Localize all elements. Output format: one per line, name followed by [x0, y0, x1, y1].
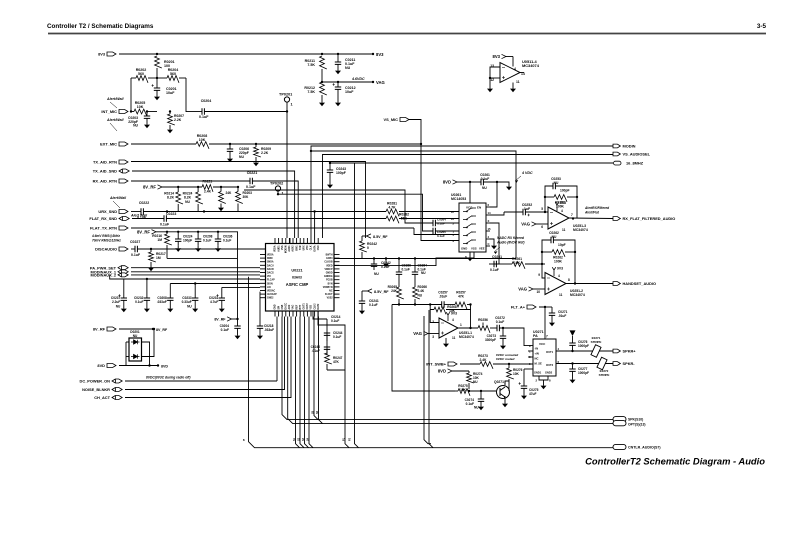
ground C0212: [337, 100, 339, 103]
svg-text:CLKOB: CLKOB: [324, 262, 333, 264]
svg-text:100K: 100K: [556, 205, 565, 209]
resistor R0211: [320, 56, 327, 69]
wire mux in1 direct: [399, 211, 459, 213]
svg-text:8V_RF: 8V_RF: [93, 327, 106, 332]
ground C0271: [551, 320, 553, 323]
svg-text:C0223: C0223: [166, 212, 176, 216]
svg-text:6: 6: [541, 225, 543, 229]
wire cap row bus 1: [110, 275, 260, 279]
svg-text:CNTLR_AUDIO(S7): CNTLR_AUDIO(S7): [628, 446, 661, 450]
wire URX_SND run: [143, 211, 386, 213]
wire mic node to C0204: [186, 111, 202, 113]
svg-text:VAG: VAG: [292, 304, 295, 309]
terminal SPK OPT double: [613, 417, 626, 422]
ground R0212: [321, 100, 323, 103]
svg-text:BYP: BYP: [300, 304, 302, 309]
supply 8VD Q0271: [448, 369, 453, 373]
svg-text:8V3: 8V3: [376, 52, 384, 57]
wire FLAT_TX_RTN: [131, 227, 414, 229]
svg-text:0.1uF: 0.1uF: [221, 328, 229, 332]
svg-text:VSS: VSS: [471, 247, 477, 251]
wire MODINAUX_2: [131, 274, 260, 276]
svg-text:100pF: 100pF: [560, 189, 570, 193]
wire U0252 out: [566, 283, 613, 285]
svg-text:NU: NU: [133, 334, 138, 338]
terminal HANDSET_AUDIO: [613, 282, 620, 286]
svg-text:NU: NU: [473, 380, 478, 384]
capacitor C0208: [169, 284, 171, 299]
svg-text:GND: GND: [275, 304, 277, 309]
ground C0204b: [237, 333, 239, 336]
wire 8V3 rail: [119, 53, 373, 55]
svg-text:NU: NU: [345, 66, 351, 70]
capacitor C0203 shunt: [146, 110, 148, 112]
svg-text:8V_RF: 8V_RF: [137, 230, 150, 235]
mux pin7 wire: [334, 252, 474, 266]
capacitor C0201: [156, 78, 158, 88]
feedback C0262: [542, 240, 551, 264]
wire PA in stubs: [528, 350, 533, 352]
svg-text:C: C: [488, 242, 490, 246]
ASIC top pins: [274, 238, 276, 244]
svg-text:11: 11: [516, 80, 520, 84]
wire 8VD bottom: [119, 365, 158, 367]
svg-text:47uF: 47uF: [529, 392, 536, 396]
ground C0232: [146, 306, 148, 309]
svg-text:VS_AUDIOSEL: VS_AUDIOSEL: [623, 152, 651, 157]
diode D0201 box: [129, 338, 142, 361]
svg-text:0.1uF: 0.1uF: [333, 335, 341, 339]
svg-text:ASFIC CMP: ASFIC CMP: [286, 282, 309, 287]
wire VS_MIC: [409, 120, 421, 145]
svg-text:Alert/Flat: Alert/Flat: [584, 211, 600, 215]
svg-text:12: 12: [451, 210, 455, 214]
terminal PA_PWR_SET: [118, 266, 128, 270]
svg-text:VS_MIC: VS_MIC: [384, 117, 399, 122]
ground C0201: [156, 94, 158, 97]
wire Q0271 emitter: [504, 397, 506, 401]
svg-text:11: 11: [562, 228, 566, 232]
resistor R0202: [131, 77, 136, 79]
wire MODIN: [311, 146, 613, 238]
svg-text:Audio (8VDC Ref): Audio (8VDC Ref): [496, 241, 524, 245]
svg-text:0.1uF: 0.1uF: [496, 320, 505, 324]
svg-text:CLK2: CLK2: [314, 303, 316, 310]
svg-text:4.6VDC: 4.6VDC: [351, 77, 365, 81]
wire bundle hook h4: [309, 317, 313, 448]
wire rail 4VDC: [311, 151, 516, 259]
wire vert x424: [424, 316, 431, 444]
svg-text:3300pF: 3300pF: [485, 338, 496, 342]
svg-text:Alert/Wail: Alert/Wail: [106, 97, 125, 101]
svg-text:4: 4: [558, 274, 560, 278]
ground C0218: [259, 333, 261, 336]
header rule: [48, 33, 766, 35]
svg-text:9V3: 9V3: [451, 312, 457, 316]
svg-text:+IN: +IN: [535, 352, 539, 356]
wire U0253 vag: [424, 331, 429, 335]
svg-text:C0204: C0204: [201, 99, 212, 103]
svg-text:0.1uF: 0.1uF: [223, 239, 231, 243]
wire DC_POWER_ON: [125, 380, 277, 382]
svg-text:MC34074: MC34074: [573, 228, 588, 232]
supply 8V_RF2: [152, 230, 157, 234]
capacitor C0208 shunt: [229, 143, 231, 145]
transistor Q0271: [497, 386, 510, 399]
svg-text:NU: NU: [554, 181, 559, 185]
ground C0274: [480, 404, 482, 407]
capacitor C0244: [324, 333, 330, 335]
wire bundle hook h1: [296, 317, 300, 448]
svg-text:4: 4: [561, 209, 563, 213]
IC U0271 PA box: [533, 339, 556, 376]
wire mux vcc: [469, 182, 471, 203]
resistor R0256 series: [478, 326, 490, 333]
ground C0243: [329, 182, 331, 185]
svg-text:10uF: 10uF: [166, 91, 175, 95]
svg-text:4.7K: 4.7K: [388, 206, 396, 210]
resistor R0276 shunt: [508, 363, 510, 365]
svg-text:2.2K: 2.2K: [261, 151, 269, 155]
svg-text:2.4K: 2.4K: [204, 190, 212, 194]
svg-text:STRIPE: STRIPE: [591, 340, 602, 344]
svg-text:VDDAC: VDDAC: [267, 290, 276, 293]
ground C0233: [194, 306, 196, 309]
svg-text:1M: 1M: [157, 238, 162, 242]
resistor R0261: [496, 263, 512, 265]
wire bus elbow 2: [288, 317, 613, 424]
svg-text:7.5K: 7.5K: [307, 90, 315, 94]
svg-text:10K: 10K: [137, 105, 144, 109]
terminal SPKR-: [613, 362, 620, 366]
svg-text:CSB: CSB: [282, 304, 284, 309]
wire DC riser: [276, 317, 278, 382]
svg-text:DMIC: DMIC: [267, 258, 273, 260]
wire rail 258: [334, 258, 516, 260]
pin numbers column A: [293, 410, 352, 441]
svg-text:FLAT_TX_RTN: FLAT_TX_RTN: [90, 226, 117, 231]
testpoint TP0201: [284, 97, 289, 102]
svg-text:11: 11: [559, 293, 563, 297]
svg-text:10K: 10K: [460, 388, 467, 392]
terminal FLAT_RX_SND: [119, 217, 129, 221]
wire to PA in: [499, 328, 533, 346]
svg-text:0: 0: [482, 322, 484, 326]
svg-text:16_8MHZ: 16_8MHZ: [626, 161, 644, 166]
svg-text:VDDBYN: VDDBYN: [323, 287, 333, 289]
svg-text:Alert/Wail: Alert/Wail: [106, 118, 125, 122]
wire FLAT_RX_SND: [132, 218, 164, 220]
resistor R0208 series: [196, 142, 209, 149]
supply 8V_RF3: [227, 317, 232, 321]
capacitor C0212: [337, 82, 339, 87]
wire left rail to R0275: [392, 305, 455, 392]
svg-text:BYN: BYN: [328, 283, 333, 285]
ground C0203: [146, 122, 148, 125]
svg-text:BW1: BW1: [296, 245, 298, 251]
ASIC bottom pins: [274, 311, 276, 317]
terminal 8V3: [107, 52, 116, 56]
terminal SPKR+: [613, 349, 620, 353]
capacitor C0218: [259, 292, 261, 326]
svg-text:SION: SION: [267, 283, 273, 285]
node R0201 top: [156, 53, 158, 55]
resistor R0205: [131, 111, 134, 113]
svg-text:0.1uF: 0.1uF: [490, 268, 499, 272]
svg-text:4.6mV RMS@3kHz: 4.6mV RMS@3kHz: [91, 234, 120, 238]
svg-text:Alert/Wail: Alert/Wail: [109, 196, 127, 200]
svg-text:2.2K: 2.2K: [174, 118, 182, 122]
resistor R0207 shunt: [169, 110, 171, 112]
op-amp U0251: [548, 207, 569, 229]
svg-text:8V3: 8V3: [98, 52, 106, 57]
svg-text:MC34074: MC34074: [459, 335, 474, 339]
capacitor C0241: [361, 291, 363, 301]
svg-text:VSS2: VSS2: [327, 298, 334, 300]
svg-text:1: 1: [282, 192, 284, 196]
svg-text:560: 560: [170, 72, 176, 76]
capacitor C0223 series: [164, 215, 166, 221]
wire mux in FLAT_TX: [414, 228, 459, 235]
terminal 16_8MHZ: [614, 161, 622, 165]
node mic bias: [156, 77, 158, 79]
svg-text:DISCAUDIO: DISCAUDIO: [95, 247, 117, 252]
svg-text:VAG: VAG: [413, 331, 422, 336]
svg-text:SNDA: SNDA: [267, 261, 274, 264]
svg-text:NU: NU: [418, 294, 423, 298]
capacitor C0278: [508, 386, 510, 391]
wire U0251 out: [569, 217, 613, 220]
svg-text:1000pF: 1000pF: [578, 371, 589, 375]
capacitor C0257 series: [442, 301, 444, 307]
ground C0208: [169, 306, 171, 309]
svg-text:C0222: C0222: [139, 201, 149, 205]
svg-text:8VD: 8VD: [161, 365, 168, 369]
testpoint TP0202: [275, 186, 280, 191]
svg-text:3-5: 3-5: [757, 23, 767, 30]
mux pin stubs left: [455, 211, 459, 213]
wire FLAT_RX_SND run: [166, 218, 386, 220]
svg-text:0.1uF: 0.1uF: [481, 177, 490, 181]
wire bias loop drop: [237, 258, 239, 319]
terminal NOISE_BLNKR: [112, 388, 122, 392]
svg-text:10K: 10K: [513, 372, 520, 376]
svg-text:RX_FLAT_FILTERED_AUDIO: RX_FLAT_FILTERED_AUDIO: [623, 216, 676, 221]
node VAG dot: [372, 81, 374, 83]
wire chain col: [326, 319, 328, 355]
svg-text:OUT1: OUT1: [546, 350, 554, 354]
ground R0217: [150, 265, 152, 268]
terminal DISCAUDIO: [119, 247, 128, 251]
capacitor C0224 shunt: [177, 231, 179, 233]
wire bias after R0221: [213, 186, 238, 188]
svg-text:0.1uF: 0.1uF: [246, 185, 256, 189]
mux pin stubs right: [486, 206, 490, 208]
ground mux pin4: [493, 243, 495, 246]
supply arrow C0276: [572, 336, 574, 338]
svg-text:MODIN: MODIN: [286, 245, 288, 253]
svg-text:GNDDG: GNDDG: [324, 276, 333, 278]
svg-text:FGSB: FGSB: [326, 280, 333, 282]
ground U0511 input: [489, 86, 491, 89]
svg-text:NU: NU: [133, 124, 138, 128]
wire U0253 inv: [430, 310, 439, 323]
ground C0273: [502, 343, 504, 346]
terminal VS_AUDIOSEL: [613, 152, 620, 156]
svg-text:VSS: VSS: [282, 245, 284, 250]
wire bundle hook h2: [300, 317, 304, 448]
svg-text:DACG: DACG: [267, 272, 274, 275]
wire TX_AID_SND: [132, 171, 295, 238]
svg-text:10K: 10K: [514, 261, 521, 265]
svg-text:GND1: GND1: [534, 371, 542, 375]
svg-text:REF: REF: [296, 304, 298, 309]
svg-text:FLAT_RX_SND: FLAT_RX_SND: [89, 216, 117, 221]
node INT_MIC bias: [130, 110, 132, 112]
svg-text:AUX1: AUX1: [288, 245, 291, 252]
capacitor C0232: [146, 279, 148, 298]
capacitor C0277: [572, 364, 574, 370]
svg-text:100K: 100K: [554, 260, 563, 264]
svg-text:INT_MIC: INT_MIC: [101, 109, 117, 114]
svg-text:CH_ACT: CH_ACT: [94, 395, 110, 400]
capacitor C0204 series: [202, 108, 204, 114]
svg-text:9: 9: [538, 273, 540, 277]
svg-text:U0221: U0221: [291, 269, 302, 273]
terminal CH_ACT: [112, 396, 122, 400]
svg-text:6VDC muted: 6VDC muted: [496, 357, 515, 361]
capacitor C0222 series: [131, 211, 141, 213]
svg-text:4: 4: [514, 67, 516, 71]
ground C0236: [217, 246, 219, 249]
resistor R0273: [480, 362, 493, 369]
resistor R0281: [386, 209, 399, 216]
svg-text:NU: NU: [116, 305, 121, 309]
svg-text:URX: URX: [304, 245, 306, 250]
svg-text:OUT2: OUT2: [546, 363, 554, 367]
svg-text:CSX: CSX: [318, 245, 320, 250]
ground C0211: [337, 68, 339, 71]
resistor R0222: [220, 187, 222, 192]
svg-text:R0221: R0221: [203, 180, 213, 184]
svg-text:100pF: 100pF: [336, 171, 346, 175]
svg-text:2: 2: [432, 320, 434, 324]
capacitor C0265 series: [433, 228, 435, 234]
feedback R0262: [542, 251, 552, 253]
svg-text:VDED: VDED: [326, 265, 333, 267]
wire U0511 inputs: [490, 67, 500, 78]
wire U0252 vag: [529, 287, 534, 291]
svg-text:EN: EN: [477, 206, 481, 210]
svg-text:VAG: VAG: [518, 287, 527, 292]
capacitor C0261 series: [481, 179, 483, 185]
capacitor C0264b column: [414, 259, 416, 273]
svg-text:1: 1: [291, 103, 293, 107]
resistor R0242: [361, 236, 363, 241]
svg-text:.033uF: .033uF: [264, 328, 274, 332]
svg-text:SPI: SPI: [278, 305, 280, 309]
terminal RX_AID_RTN: [119, 179, 128, 183]
wire node row 304.5: [392, 304, 442, 306]
PA gnd pins: [539, 376, 548, 380]
svg-text:47K: 47K: [333, 360, 340, 364]
resistor R0257: [444, 304, 455, 306]
ground C0242 side: [385, 259, 387, 262]
svg-text:24K: 24K: [226, 191, 233, 195]
svg-text:NU: NU: [239, 155, 244, 159]
svg-text:VDDCP: VDDCP: [324, 269, 333, 271]
svg-text:TP0201: TP0201: [279, 93, 292, 97]
ground C0231: [221, 306, 223, 309]
wire 8V_RF top: [119, 328, 153, 330]
wire bus hook b2: [319, 317, 323, 424]
capacitor C0237: [123, 279, 125, 298]
capacitor C0261b series: [489, 263, 494, 265]
svg-text:M_SE: M_SE: [535, 362, 543, 366]
resistor R0274: [468, 371, 470, 373]
wire C0221 to riser: [252, 181, 298, 238]
svg-text:FLT_A+: FLT_A+: [511, 305, 526, 310]
svg-text:LIO: LIO: [267, 287, 271, 289]
svg-text:MODINAUX_2: MODINAUX_2: [90, 273, 116, 278]
svg-text:10: 10: [536, 290, 540, 294]
wire RX_AID_RTN: [131, 180, 250, 182]
resistor R0216: [166, 231, 168, 233]
svg-text:MODIN: MODIN: [623, 144, 636, 149]
svg-text:OUT2: OUT2: [307, 303, 309, 310]
supply 8V_RF bias: [158, 185, 163, 189]
ground R0207: [169, 127, 171, 130]
svg-text:UTX: UTX: [307, 245, 309, 250]
svg-text:FLOUT: FLOUT: [325, 294, 333, 296]
wire bias verticals: [177, 186, 179, 188]
wire bias right leg: [185, 78, 187, 112]
capacitor C0211: [337, 53, 339, 55]
wire INT_SWB+: [460, 363, 480, 365]
svg-text:DACC: DACC: [285, 303, 288, 310]
supply 8.5V_RF R0242: [362, 235, 367, 237]
capacitor C0236 shunt: [217, 231, 219, 233]
svg-text:TP0202: TP0202: [270, 182, 283, 186]
ground R0209: [255, 160, 257, 163]
svg-text:.033uF: .033uF: [157, 300, 167, 304]
svg-text:8V_RF: 8V_RF: [143, 185, 156, 190]
svg-text:0.1uF: 0.1uF: [135, 300, 143, 304]
wire NOISE_BLNKR: [125, 317, 285, 390]
svg-text:CLK: CLK: [311, 245, 313, 250]
node R0211 top: [321, 53, 323, 55]
svg-text:8VD: 8VD: [97, 363, 105, 368]
svg-text:0.1uF: 0.1uF: [203, 239, 211, 243]
wire DISCAUDIO run: [137, 238, 290, 249]
terminal VS_MIC: [400, 118, 409, 122]
svg-text:DC_POWER_ON: DC_POWER_ON: [80, 379, 111, 384]
wire TP0202 net to C0265: [278, 194, 433, 231]
svg-text:10pF: 10pF: [558, 243, 566, 247]
svg-text:URX_SND: URX_SND: [98, 209, 117, 214]
svg-text:SPKR-: SPKR-: [623, 361, 636, 366]
svg-text:AUXCAP: AUXCAP: [267, 293, 277, 296]
svg-text:NC: NC: [329, 291, 333, 293]
svg-text:.01uF: .01uF: [558, 314, 566, 318]
resistor R0201: [155, 56, 162, 68]
resistor R0217 shunt: [150, 248, 152, 250]
svg-text:0.1uF: 0.1uF: [369, 303, 378, 307]
resistor R0266: [413, 287, 420, 299]
svg-text:560: 560: [138, 72, 144, 76]
svg-text:4.7uF: 4.7uF: [210, 300, 218, 304]
svg-text:HANDSET_AUDIO: HANDSET_AUDIO: [623, 281, 657, 286]
